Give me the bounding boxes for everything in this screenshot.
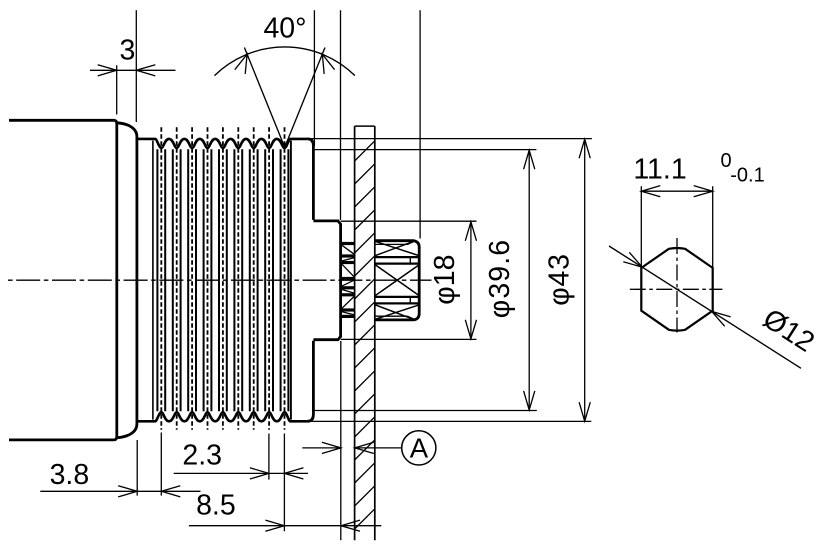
svg-text:40°: 40° xyxy=(263,12,306,44)
dimension 2.3 xyxy=(174,434,308,532)
label phi18 xyxy=(429,255,461,305)
shaft (left cylinder) xyxy=(9,120,117,440)
main centerline xyxy=(8,279,432,281)
spline thread pattern xyxy=(375,241,419,319)
svg-text:A: A xyxy=(410,433,429,464)
spline shaft outline xyxy=(375,241,419,320)
dimension phi43 xyxy=(308,139,592,422)
svg-text:2.3: 2.3 xyxy=(182,440,222,472)
rib zone boundary left xyxy=(152,141,154,420)
label phi43 xyxy=(544,253,576,306)
dimension 40 degrees xyxy=(215,12,355,147)
hex centerlines xyxy=(630,238,723,333)
svg-text:-0.1: -0.1 xyxy=(730,165,764,187)
mounting wall outline xyxy=(355,126,375,540)
svg-text:3.8: 3.8 xyxy=(50,459,90,491)
dimension phi39.6 xyxy=(314,150,537,411)
svg-text:11.1: 11.1 xyxy=(633,153,686,185)
svg-text:φ39.6: φ39.6 xyxy=(484,239,516,318)
spline serrations at hub face xyxy=(342,244,354,317)
extension line boss face bottom xyxy=(340,341,342,540)
pulley groove walls and centerlines xyxy=(157,127,288,430)
extension line boss face top xyxy=(340,10,342,220)
extension line spline end top xyxy=(419,10,421,238)
svg-text:φ43: φ43 xyxy=(544,253,576,306)
dimension 8.5 xyxy=(189,489,381,531)
gap dimension A with datum circle xyxy=(302,431,436,465)
dimension diameter 12 leader xyxy=(609,246,820,368)
pulley rib profile top xyxy=(137,139,308,148)
rib zone boundary right xyxy=(290,141,292,420)
dimension 3 xyxy=(90,10,176,122)
label phi39.6 xyxy=(484,239,516,318)
dimension 11.1 with tolerance xyxy=(633,150,764,270)
pulley rib profile bottom xyxy=(137,412,308,421)
extension line pulley face top xyxy=(313,10,315,146)
dimension phi18 xyxy=(341,221,477,339)
svg-text:3: 3 xyxy=(119,35,135,67)
spline root lines xyxy=(375,242,413,319)
svg-text:8.5: 8.5 xyxy=(196,489,236,521)
dimension 3.8 xyxy=(40,433,200,497)
svg-text:φ18: φ18 xyxy=(429,255,461,305)
pulley right face and hub boss xyxy=(308,139,341,421)
wall hatching xyxy=(355,141,375,529)
pulley left flange xyxy=(117,123,137,438)
hex shaft end view xyxy=(641,248,712,331)
